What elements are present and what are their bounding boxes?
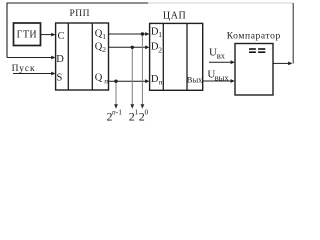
arrow into S [51, 72, 55, 76]
wire comparator output [273, 62, 289, 64]
arrow into D [51, 56, 55, 60]
wire drop from Qn node to 2^n-1 [115, 81, 117, 104]
svg-text:вх: вх [217, 51, 226, 61]
svg-text:n: n [104, 77, 108, 86]
DAC divider right [186, 23, 188, 90]
svg-text:0: 0 [145, 108, 149, 117]
wire U_vx stub [209, 61, 233, 63]
svg-text:Вых: Вых [187, 74, 203, 84]
block DAC box [150, 23, 203, 90]
node junction Q1 [141, 32, 144, 35]
wire Q2 to D2 [109, 46, 148, 48]
arrow into C [51, 33, 55, 37]
svg-text:C: C [58, 31, 65, 42]
svg-text:Пуск: Пуск [12, 64, 36, 74]
wire feedback right vertical [292, 3, 294, 63]
symbol == bar 1 [249, 48, 256, 50]
wire S input (Pusk) [13, 73, 54, 75]
svg-text:S: S [57, 72, 63, 83]
svg-text:U: U [209, 47, 217, 59]
arrow U_vx into comparator [231, 60, 235, 64]
wire D input (feedback to RPP) [7, 57, 54, 59]
wire C input (GTI to RPP) [41, 34, 54, 36]
svg-text:2: 2 [102, 45, 106, 54]
wire drop from Q1 node to 2^0 [141, 34, 143, 105]
node junction Qn [114, 80, 117, 83]
svg-text:2: 2 [158, 45, 162, 54]
wire Q1 to D1 [109, 33, 148, 35]
svg-text:РПП: РПП [69, 9, 90, 19]
svg-text:1: 1 [158, 30, 162, 39]
block comparator box [235, 44, 273, 96]
arrow into D1 [145, 32, 149, 36]
svg-text:Q: Q [95, 73, 103, 84]
wire drop from Q2 node to 2^1 [131, 47, 133, 104]
svg-text:n: n [159, 78, 163, 87]
svg-text:ГТИ: ГТИ [17, 30, 37, 41]
wire Qn to Dn [109, 80, 148, 82]
wire feedback top (light segment) [148, 2, 293, 4]
DAC divider left [162, 23, 164, 90]
svg-text:D: D [56, 54, 64, 65]
wire U_vyx from DAC to comparator [203, 80, 233, 82]
arrow comparator output to feedback [288, 62, 292, 66]
svg-text:1: 1 [102, 32, 106, 41]
symbol == bar 4 [258, 51, 265, 53]
arrow into Dn [145, 79, 149, 83]
svg-text:ЦАП: ЦАП [163, 11, 186, 22]
wire feedback left+top (dark segment) [7, 3, 148, 58]
arrow U_vyx into comparator [231, 79, 235, 83]
svg-text:n-1: n-1 [112, 108, 122, 117]
arrow down 2^1 [130, 104, 134, 109]
symbol == bar 2 [258, 48, 265, 50]
block RPP box [56, 23, 109, 90]
svg-text:вых: вых [215, 73, 230, 83]
arrow down 2^n-1 [114, 104, 118, 109]
arrow into D2 [145, 45, 149, 49]
symbol == bar 3 [249, 51, 256, 53]
svg-text:D: D [151, 74, 159, 85]
arrow down 2^0 [141, 104, 145, 109]
RPP divider right [91, 23, 93, 90]
RPP divider left [67, 23, 69, 90]
svg-text:Компаратор: Компаратор [227, 31, 281, 41]
node junction Q2 [131, 46, 134, 49]
block GTI box [14, 23, 41, 46]
